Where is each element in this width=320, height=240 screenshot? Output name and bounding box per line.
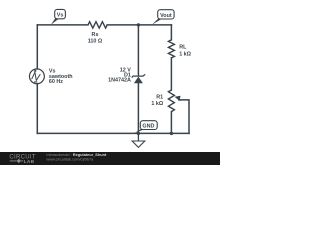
resistor RL xyxy=(168,40,191,58)
svg-text:www.circuitlab.com/c89b7a: www.circuitlab.com/c89b7a xyxy=(46,157,94,162)
wire top-left segment xyxy=(37,24,88,26)
wire wiper return xyxy=(179,100,189,133)
svg-text:1N4742A: 1N4742A xyxy=(108,78,131,84)
node flag Vout xyxy=(152,10,174,25)
wire top-right segment xyxy=(107,24,171,26)
svg-text:R1: R1 xyxy=(156,94,163,100)
svg-text:1 kΩ: 1 kΩ xyxy=(151,101,163,107)
junction node at bottom of zener branch xyxy=(137,132,140,135)
wire right branch lower xyxy=(170,112,172,134)
wire bottom horizontal xyxy=(37,132,189,134)
svg-text:GND: GND xyxy=(142,124,154,130)
node flag GND xyxy=(134,121,157,134)
wire left vertical upper xyxy=(36,25,38,69)
junction node at top of zener branch xyxy=(137,23,140,26)
resistor Rs xyxy=(88,22,107,45)
junction node at R1 bottom xyxy=(170,132,173,135)
wire right branch upper xyxy=(170,25,172,40)
footer bar xyxy=(0,152,220,165)
wire zener branch lower xyxy=(137,83,139,133)
svg-text:RL: RL xyxy=(179,45,187,51)
voltage source Vs xyxy=(29,69,72,86)
potentiometer R1 wiper arrow xyxy=(175,96,182,101)
wire zener branch upper xyxy=(137,25,139,76)
ground xyxy=(132,133,145,147)
svg-text:Rs: Rs xyxy=(92,32,99,38)
svg-text:60 Hz: 60 Hz xyxy=(49,79,63,85)
wire right branch middle xyxy=(170,58,172,90)
zener diode D1 xyxy=(108,68,145,84)
svg-text:1 kΩ: 1 kΩ xyxy=(179,52,191,58)
svg-text:Vs: Vs xyxy=(57,12,64,18)
potentiometer R1 xyxy=(151,90,174,112)
svg-text:LAB: LAB xyxy=(24,159,35,165)
svg-text:Vout: Vout xyxy=(160,13,172,19)
node flag Vs xyxy=(51,9,66,24)
svg-text:110 Ω: 110 Ω xyxy=(88,39,103,45)
wire left vertical lower xyxy=(36,84,38,134)
